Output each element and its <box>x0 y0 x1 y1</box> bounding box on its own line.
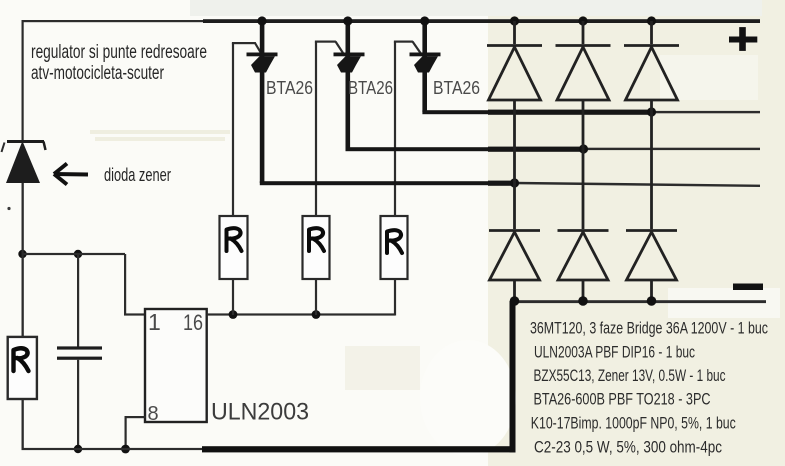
wire R3 bottom <box>394 279 396 316</box>
junction dot left wire / node row <box>18 250 26 258</box>
svg-text:BTA26-600B PBF TO218 - 3PC: BTA26-600B PBF TO218 - 3PC <box>534 390 711 409</box>
svg-text:36MT120, 3 faze Bridge 36A 120: 36MT120, 3 faze Bridge 36A 1200V - 1 buc <box>530 319 768 338</box>
svg-text:8: 8 <box>148 403 159 425</box>
wire rail C (from Q1) <box>260 181 489 185</box>
junction dot D2 / top rail <box>510 16 519 25</box>
junction dot D3 / top rail <box>578 16 587 25</box>
junction dot Q2 / top rail <box>343 16 352 25</box>
junction dot Q3 / top rail <box>420 16 429 25</box>
arrow pointing to zener <box>54 164 88 185</box>
wire left vertical <box>22 20 24 141</box>
wire R2 bottom <box>315 279 317 315</box>
svg-text:C2-23 0,5 W, 5%, 300 ohm-4pc: C2-23 0,5 W, 5%, 300 ohm-4pc <box>534 438 722 457</box>
diode D4 (top row 3) <box>624 21 679 229</box>
junction dot D6 / minus rail <box>578 296 588 306</box>
junction dot D7 / minus rail <box>647 296 657 306</box>
svg-text:BZX55C13, Zener 13V, 0.5W - 1: BZX55C13, Zener 13V, 0.5W - 1 buc <box>534 366 726 385</box>
diode D6 (bottom row 2) <box>558 231 609 302</box>
thyristor Q1 BTA26 <box>247 21 278 183</box>
wire horizontal y=254 <box>22 253 125 255</box>
junction dot R2 / pin16 rail <box>312 310 321 319</box>
thyristor Q3 BTA26 <box>410 21 441 112</box>
svg-text:dioda zener: dioda zener <box>104 165 171 185</box>
wire R3 top (gate SCR3) <box>394 42 396 217</box>
svg-text:1: 1 <box>148 309 161 335</box>
wire zener to R4 <box>22 183 24 337</box>
wire R1 top (gate SCR1) <box>232 43 234 216</box>
svg-text:ULN2003: ULN2003 <box>211 399 309 426</box>
svg-text:16: 16 <box>183 310 203 335</box>
svg-text:BTA26: BTA26 <box>266 78 313 98</box>
wire rail A (from Q3) <box>422 110 488 114</box>
resistor R1 <box>220 216 248 279</box>
junction dot capacitor / bottom rail <box>74 445 82 453</box>
svg-text:regulator si punte redresoare: regulator si punte redresoare <box>31 42 207 63</box>
wire R2 top (gate SCR2) <box>315 42 317 217</box>
svg-text:BTA26: BTA26 <box>348 78 393 98</box>
diode D7 (bottom row 3) <box>626 231 677 302</box>
IC U1 ULN2003 box <box>145 309 207 422</box>
wire thick vertical to minus rail <box>510 301 516 452</box>
svg-text:K10-17Bimp. 1000pF NP0, 5%, 1: K10-17Bimp. 1000pF NP0, 5%, 1 buc <box>531 414 736 433</box>
wire down to ULN pin1 <box>124 254 126 315</box>
minus terminal <box>733 284 763 291</box>
junction dot D4 / top rail <box>647 16 656 25</box>
junction dot D2 / rail C <box>510 178 519 187</box>
resistor R3 <box>381 216 408 279</box>
plus terminal <box>729 27 757 51</box>
resistor R2 <box>303 216 330 279</box>
junction dot D4 / rail A <box>647 107 656 116</box>
zener diode D1 <box>2 140 46 183</box>
junction dot R1 / pin16 rail <box>229 310 238 319</box>
wire minus rail <box>513 300 766 303</box>
junction dot Q1 / top rail <box>257 16 266 25</box>
thyristor Q2 BTA26 <box>334 21 365 149</box>
wire pin8 <box>125 416 146 418</box>
svg-text:BTA26: BTA26 <box>433 78 480 98</box>
junction dot D5 / minus rail <box>510 296 520 306</box>
wire top rail <box>22 20 203 22</box>
junction dot pin8 / bottom rail <box>121 445 130 454</box>
wire bottom rail thin <box>22 448 204 450</box>
resistor R4 (left) <box>8 337 37 399</box>
capacitor C1 <box>57 254 102 449</box>
wire rail B (from Q2) <box>346 147 489 151</box>
wire R1 bottom <box>232 279 234 315</box>
wire pin16 rail <box>207 313 395 315</box>
diode D5 (bottom row 1) <box>489 231 540 302</box>
wire R4 to bottom rail <box>22 399 24 449</box>
wire bottom rail thick <box>202 446 516 452</box>
stray speck <box>7 207 10 210</box>
diode D2 (top row 1) <box>487 21 542 229</box>
svg-text:ULN2003A PBF DIP16 - 1 buc: ULN2003A PBF DIP16 - 1 buc <box>534 343 695 362</box>
junction dot capacitor top <box>74 250 82 258</box>
svg-text:atv-motocicleta-scuter: atv-motocicleta-scuter <box>31 63 164 84</box>
diode D3 (top row 2) <box>556 21 611 229</box>
junction dot D3 / rail B <box>579 144 588 153</box>
